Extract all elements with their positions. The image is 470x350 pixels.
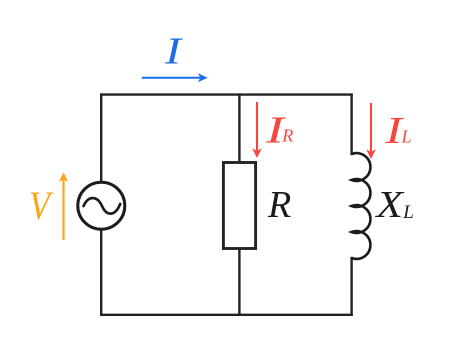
AC source sine symbol	[84, 198, 121, 214]
AC source V1 circle	[78, 182, 125, 229]
svg-text:L: L	[402, 202, 414, 223]
svg-text:R: R	[267, 184, 291, 226]
svg-text:L: L	[401, 127, 412, 147]
wire: top horizontal	[101, 93, 351, 95]
wire: left vertical upper (top node to source)	[100, 95, 102, 182]
label IL (red)	[384, 110, 411, 152]
current arrow IR (red, down)	[252, 102, 262, 158]
wire: middle branch lower (resistor to bottom node)	[238, 249, 240, 315]
svg-text:R: R	[281, 126, 293, 146]
svg-text:X: X	[374, 184, 405, 226]
wire: middle branch upper (top node to resistor)	[238, 95, 240, 162]
resistor R body	[223, 163, 255, 249]
label XL (black)	[374, 184, 414, 226]
svg-text:V: V	[29, 183, 54, 228]
wire: right vertical upper (corner to inductor)	[350, 95, 352, 154]
svg-text:I: I	[164, 31, 184, 73]
current arrow I (blue, top)	[142, 73, 208, 82]
wire: right vertical lower (inductor to corner)	[350, 258, 352, 315]
wire: left vertical lower (source to bottom corner)	[100, 230, 102, 315]
inductor XL coil	[352, 153, 371, 259]
voltage arrow V (orange, up)	[59, 172, 68, 240]
label IR (red)	[265, 110, 294, 152]
current arrow IL (red, down)	[366, 103, 376, 159]
wire: bottom horizontal	[101, 314, 351, 316]
